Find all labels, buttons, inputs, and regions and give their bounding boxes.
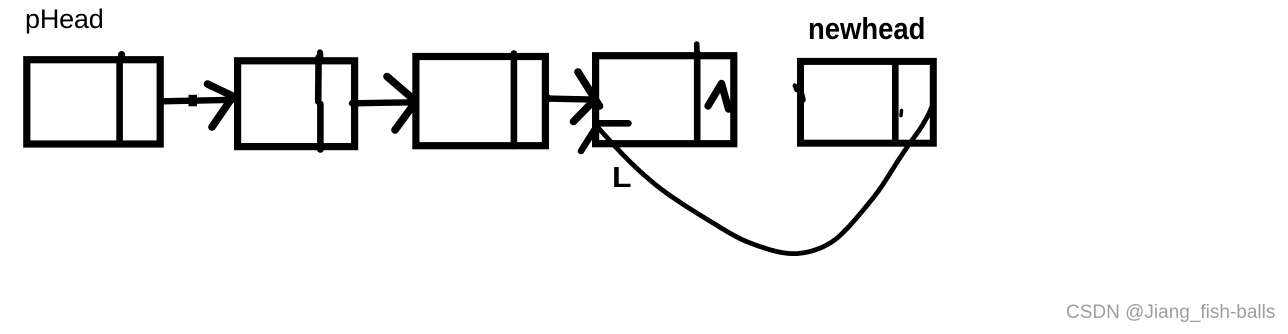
- node N3 pointer-field divider: [511, 54, 518, 147]
- wire w4 arrowhead lower barb: [581, 127, 597, 152]
- label newhead: [808, 13, 925, 44]
- null mark caret in N4 pointer field: [708, 84, 729, 110]
- node N2 divider lower segment: [317, 104, 324, 150]
- wire w1 shaft blob: [189, 95, 198, 107]
- wire w1 arrowhead upper barb: [208, 84, 232, 96]
- node N3 box outline: [416, 57, 546, 146]
- node N2 top-edge pen nub: [317, 53, 323, 59]
- wire w2 arrowhead upper barb: [387, 77, 416, 102]
- label pHead: [25, 6, 104, 33]
- node N2 box outline: [238, 61, 355, 147]
- curved wire w4 (N5 back-pointer to N4), swings below: [598, 102, 935, 254]
- node N4 top-edge pen nub: [694, 44, 700, 53]
- node N5 (newhead) box outline: [801, 61, 934, 143]
- node N5 pen tick right of divider: [899, 111, 903, 116]
- wire w3 shaft (N3.next -> N4): [548, 99, 593, 100]
- node N1 (pHead) box outline: [27, 60, 160, 144]
- wire w1 arrowhead lower barb: [212, 100, 231, 127]
- node N4 (L) box outline: [596, 56, 734, 144]
- node N5 pointer-field divider: [892, 62, 899, 143]
- wire w3 arrowhead upper barb: [578, 72, 600, 106]
- wire w2 shaft (N2.next -> N3): [352, 102, 414, 103]
- node N5 left-edge pen tick lower: [802, 95, 803, 100]
- wire w3 start pen dot: [543, 94, 551, 102]
- watermark CSDN @Jiang_fish-balls: [1066, 303, 1275, 322]
- wire w3 arrowhead lower barb: [574, 100, 596, 122]
- node N1 pointer-field divider: [116, 60, 123, 144]
- node N2 divider upper segment: [315, 57, 322, 101]
- wire w1 shaft (N1.next -> N2): [162, 100, 233, 102]
- wire w4 arrowhead horizontal barb: [599, 120, 629, 127]
- node N4 pointer-field divider: [694, 53, 701, 144]
- wire w2 arrowhead lower barb: [395, 104, 415, 131]
- node N1 top-edge pen dot: [118, 51, 125, 58]
- node N5 left-edge pen tick upper: [795, 86, 797, 91]
- label L (node N4): [612, 164, 631, 193]
